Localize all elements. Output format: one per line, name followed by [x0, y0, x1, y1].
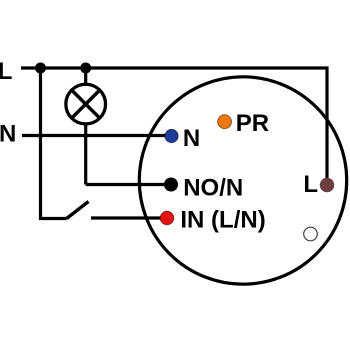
svg-text:N: N [183, 125, 200, 152]
svg-text:PR: PR [236, 110, 269, 137]
svg-text:NO/N: NO/N [183, 175, 243, 202]
svg-text:L: L [0, 58, 12, 85]
svg-text:IN (L/N): IN (L/N) [180, 206, 265, 233]
svg-text:L: L [303, 171, 318, 198]
svg-text:N: N [0, 121, 16, 148]
